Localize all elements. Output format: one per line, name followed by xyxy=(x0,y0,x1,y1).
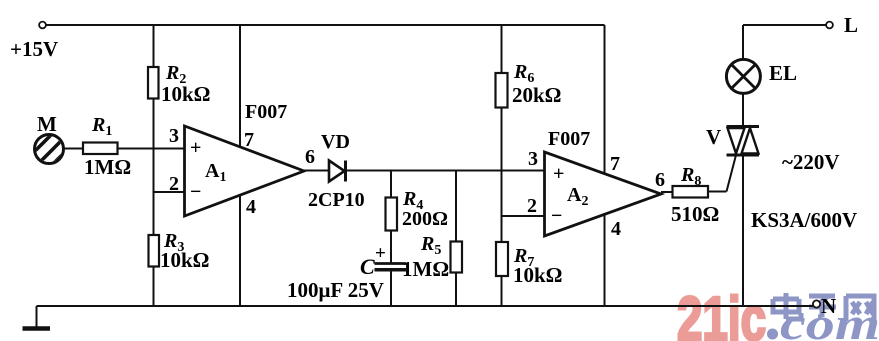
op-amp A1 xyxy=(169,101,315,218)
svg-text:7: 7 xyxy=(244,129,254,151)
svg-text:R5: R5 xyxy=(420,233,441,258)
svg-text:4: 4 xyxy=(246,196,256,218)
svg-text:~220V: ~220V xyxy=(782,150,840,174)
svg-text:F007: F007 xyxy=(245,101,287,123)
lamp EL xyxy=(726,59,797,93)
wire node to R5 xyxy=(455,171,457,242)
terminal +15V xyxy=(10,22,58,61)
wire R8 to gate xyxy=(708,191,727,193)
svg-text:EL: EL xyxy=(769,61,797,85)
wire R6 to R7 column xyxy=(501,108,503,243)
svg-text:L: L xyxy=(844,13,858,37)
watermark 21ic.com xyxy=(677,285,879,341)
svg-text:3: 3 xyxy=(169,125,179,147)
svg-text:2: 2 xyxy=(169,173,179,195)
svg-text:V: V xyxy=(706,125,721,149)
wire rail to R6 xyxy=(501,25,503,73)
wire bottom rail xyxy=(37,305,814,307)
wire A1 pin7 xyxy=(239,25,241,147)
op-amp A2 xyxy=(527,128,665,240)
svg-text:−: − xyxy=(551,205,562,227)
resistor R2 xyxy=(148,62,211,106)
wire pin2 stub xyxy=(154,191,185,193)
resistor R6 xyxy=(496,61,562,108)
svg-text:KS3A/600V: KS3A/600V xyxy=(751,208,857,232)
svg-text:+15V: +15V xyxy=(10,37,58,61)
svg-text:R1: R1 xyxy=(91,114,112,139)
svg-text:6: 6 xyxy=(305,146,315,168)
svg-text:10kΩ: 10kΩ xyxy=(513,263,563,287)
resistor R7 xyxy=(496,242,563,287)
svg-text:VD: VD xyxy=(321,131,350,153)
wire rail to R2 xyxy=(153,25,155,67)
wire L to lamp xyxy=(742,25,744,60)
terminal L xyxy=(826,13,858,37)
svg-text:200Ω: 200Ω xyxy=(402,208,448,230)
wire triac to bottom rail xyxy=(742,155,744,306)
svg-text:+: + xyxy=(190,137,201,159)
wire gate diagonal xyxy=(727,155,737,192)
diode VD 2CP10 xyxy=(308,131,365,211)
svg-text:M: M xyxy=(37,112,57,136)
wire A2 pin2 stub xyxy=(502,215,545,217)
svg-text:21ic: 21ic xyxy=(677,285,766,341)
photoresistor M xyxy=(31,112,68,173)
svg-text:3: 3 xyxy=(528,148,538,170)
wire R1 to pin3 xyxy=(118,148,185,150)
wire C to bottom rail xyxy=(390,270,392,306)
svg-text:C: C xyxy=(360,254,375,279)
wire R4 to C xyxy=(390,231,392,264)
resistor R3 xyxy=(149,230,210,272)
svg-text:2CP10: 2CP10 xyxy=(308,189,365,211)
wire lamp to triac xyxy=(742,93,744,127)
svg-text:F007: F007 xyxy=(548,128,590,150)
terminal N xyxy=(813,294,836,318)
svg-text:10kΩ: 10kΩ xyxy=(161,82,211,106)
wire L terminal rail xyxy=(743,24,827,26)
svg-text:10kΩ: 10kΩ xyxy=(160,248,210,272)
wire node to R4 xyxy=(390,171,392,198)
svg-text:N: N xyxy=(821,294,836,318)
wire M to R1 xyxy=(64,148,84,150)
resistor R4 xyxy=(386,188,449,231)
wire A2 pin4 xyxy=(604,215,606,307)
wire R2 to R3 column xyxy=(153,99,155,236)
wire R7 to bottom rail xyxy=(501,276,503,306)
capacitor C xyxy=(287,243,406,302)
wire R3 to bottom rail xyxy=(153,267,155,307)
svg-text:1MΩ: 1MΩ xyxy=(84,155,131,179)
svg-text:+: + xyxy=(553,163,564,185)
resistor R8 xyxy=(671,164,719,226)
svg-text:6: 6 xyxy=(655,169,665,191)
svg-text:510Ω: 510Ω xyxy=(671,202,719,226)
wire A2 pin7 xyxy=(604,25,606,174)
ground xyxy=(23,326,51,331)
svg-text:20kΩ: 20kΩ xyxy=(512,83,562,107)
svg-text:1MΩ: 1MΩ xyxy=(402,257,449,281)
svg-text:2: 2 xyxy=(527,195,537,217)
wire ground drop xyxy=(36,306,38,327)
svg-text:100μF 25V: 100μF 25V xyxy=(287,278,384,302)
wire top rail xyxy=(46,24,605,26)
svg-text:+: + xyxy=(375,243,386,264)
wire node xyxy=(346,170,545,172)
wire A1 pin4 xyxy=(239,195,241,306)
svg-text:R8: R8 xyxy=(680,164,701,189)
wire R5 to bottom rail xyxy=(455,273,457,307)
svg-text:4: 4 xyxy=(611,218,621,240)
wire A1 out xyxy=(304,170,329,172)
watermark chinese glyphs xyxy=(773,293,874,321)
svg-text:7: 7 xyxy=(610,153,620,175)
wire A2 out xyxy=(661,191,673,193)
resistor R1 xyxy=(83,114,131,179)
svg-text:−: − xyxy=(190,181,201,203)
resistor R5 xyxy=(402,233,462,281)
triac V xyxy=(706,125,759,155)
